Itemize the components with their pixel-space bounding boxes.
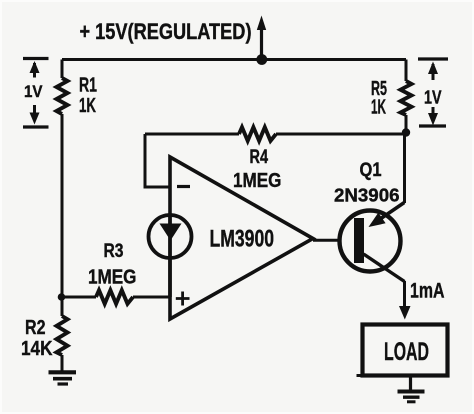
ground under LOAD	[398, 392, 425, 402]
resistor R1	[57, 78, 68, 114]
wire left rail vertical	[61, 60, 64, 79]
transistor Q1 body circle	[340, 211, 401, 272]
node 1V measurement right	[418, 59, 448, 126]
resistor R4	[239, 127, 276, 141]
wire R2 to ground	[61, 355, 64, 371]
svg-text:1MEG: 1MEG	[88, 267, 137, 289]
transistor collector	[364, 254, 405, 282]
resistor R2	[57, 297, 68, 355]
svg-text:1V: 1V	[424, 88, 442, 108]
wire feedback to R5 junction	[276, 132, 406, 134]
wire feedback left drop to minus input	[145, 134, 170, 187]
transistor emitter with arrow	[369, 203, 405, 228]
resistor R3	[96, 290, 133, 304]
svg-text:1K: 1K	[371, 97, 386, 119]
wire LOAD to ground	[409, 377, 412, 390]
ground left	[49, 372, 77, 384]
wire plus input horizontal	[62, 296, 96, 299]
wire R3 to op-amp plus	[133, 296, 170, 299]
svg-text:1K: 1K	[79, 95, 96, 117]
LOAD box	[363, 325, 448, 376]
wire stub at LOAD box corner	[357, 374, 363, 377]
current source symbol inside op-amp	[149, 215, 192, 258]
svg-text:1mA: 1mA	[410, 280, 445, 303]
wire op-amp output to transistor base	[313, 239, 354, 242]
wire current source to plus input	[168, 258, 172, 297]
svg-text:2N3906: 2N3906	[334, 186, 400, 206]
svg-text:R4: R4	[250, 147, 269, 168]
wire collector down with 1mA arrow	[399, 281, 411, 320]
svg-text:R2: R2	[25, 317, 46, 339]
svg-text:Q1: Q1	[360, 160, 382, 181]
junction dot plus node	[58, 293, 66, 301]
resistor R5	[401, 60, 412, 133]
wire top supply rail	[62, 58, 406, 61]
transistor base bar	[354, 218, 364, 263]
svg-text:1MEG: 1MEG	[233, 170, 282, 192]
wire left vertical down to plus node	[61, 114, 64, 297]
plus input sign	[176, 292, 190, 306]
node 1V measurement left	[23, 59, 49, 128]
svg-text:R3: R3	[104, 241, 124, 262]
svg-text:LOAD: LOAD	[384, 338, 429, 366]
svg-text:1V: 1V	[24, 82, 43, 101]
minus input sign	[177, 185, 190, 188]
svg-text:14K: 14K	[21, 338, 53, 360]
svg-text:R1: R1	[79, 75, 97, 97]
wire feedback horizontal	[145, 133, 239, 136]
svg-text:+ 15V(REGULATED): + 15V(REGULATED)	[80, 19, 252, 44]
op-amp U1 triangle	[170, 157, 313, 319]
svg-text:LM3900: LM3900	[210, 226, 275, 253]
node supply arrow up	[257, 16, 266, 60]
junction dot at supply rail	[256, 54, 267, 65]
junction dot R5 bottom	[402, 128, 410, 136]
wire emitter vertical to R5 junction	[403, 133, 406, 204]
